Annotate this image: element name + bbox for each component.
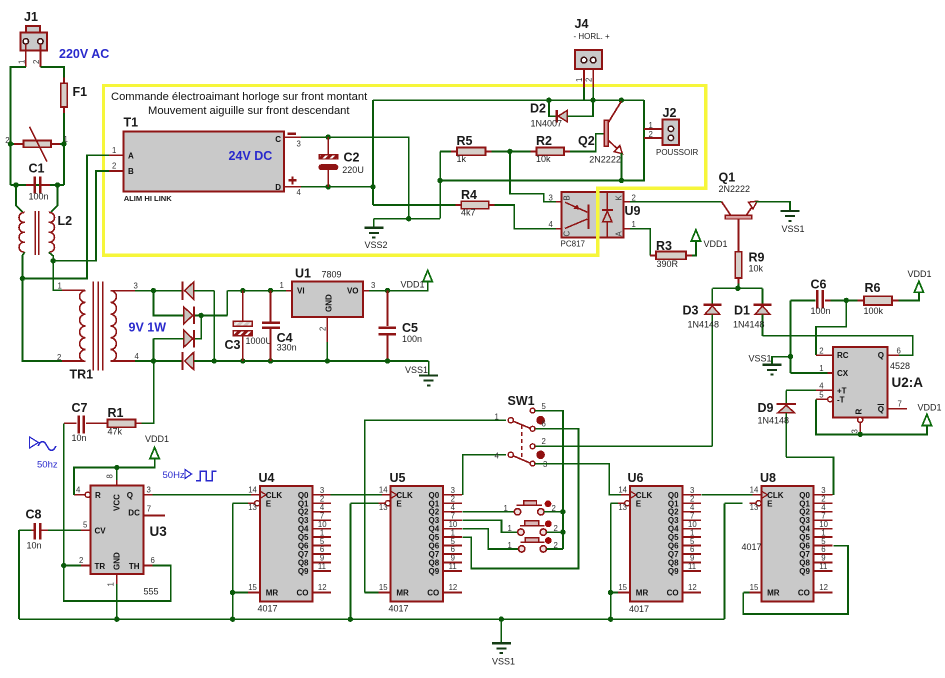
junction bridge minus	[212, 358, 217, 363]
svg-text:2: 2	[319, 327, 328, 331]
svg-text:390R: 390R	[657, 259, 679, 269]
svg-text:4k7: 4k7	[461, 207, 476, 217]
junction L2 right	[50, 258, 55, 263]
wire U1 pin2 to 0V	[326, 317, 328, 342]
svg-text:4017: 4017	[258, 604, 278, 614]
svg-text:R: R	[95, 491, 101, 500]
pin Q6 stub	[888, 354, 899, 356]
capacitor C1 100n	[10, 184, 64, 186]
bridge diode D row3	[184, 330, 193, 347]
svg-text:C6: C6	[811, 277, 827, 291]
wire R4 to U9 pin4	[495, 205, 556, 229]
resistor R4 4k7	[373, 204, 456, 206]
transistor Q2 2N2222	[619, 98, 624, 103]
svg-text:VDD1: VDD1	[704, 239, 728, 249]
svg-text:R: R	[855, 409, 864, 415]
svg-text:Q: Q	[878, 405, 884, 414]
pin +T4	[816, 389, 833, 391]
svg-text:RC: RC	[837, 351, 849, 360]
svg-text:R3: R3	[656, 239, 672, 253]
capacitor C2 220U	[326, 134, 331, 139]
wire U4 E/MR to rail	[233, 502, 248, 504]
svg-text:4: 4	[549, 220, 554, 229]
diode D3 1N4148	[711, 288, 713, 304]
svg-text:D9: D9	[758, 401, 774, 415]
capacitor C8 10n	[48, 529, 81, 531]
svg-text:- HORL. +: - HORL. +	[574, 32, 611, 41]
pin -T5 bubble	[828, 397, 833, 402]
wire bridge v3	[195, 315, 201, 338]
yellow highlight box	[104, 86, 706, 256]
svg-text:L2: L2	[58, 214, 73, 228]
SW1 contact 6	[530, 426, 535, 431]
wire U9 pin2 to Q1 collector	[624, 201, 630, 203]
svg-text:4: 4	[819, 381, 824, 390]
junction pinC/VSS2	[406, 216, 411, 221]
svg-text:R5: R5	[457, 134, 473, 148]
junction varistor right	[61, 141, 66, 146]
pin DC7	[144, 515, 166, 517]
svg-text:VDD1: VDD1	[908, 269, 932, 279]
wire TR1 pin4	[111, 360, 136, 362]
svg-text:4017: 4017	[742, 542, 762, 552]
svg-text:DC: DC	[128, 508, 140, 517]
wire CX pin1	[791, 372, 828, 374]
svg-text:7: 7	[898, 400, 902, 409]
svg-text:2: 2	[79, 556, 83, 565]
svg-text:3: 3	[147, 485, 151, 494]
svg-text:D1: D1	[734, 304, 750, 318]
svg-text:10k: 10k	[536, 154, 551, 164]
diode D9 1N4148	[786, 389, 816, 391]
pushbutton B2	[518, 529, 524, 535]
svg-text:1k: 1k	[457, 154, 467, 164]
wire D3-D1 top link	[712, 287, 762, 289]
capacitor C7 10n	[64, 422, 77, 424]
svg-text:C: C	[275, 135, 281, 144]
SW1 marker A	[536, 416, 545, 425]
resistor R5 1k	[440, 150, 451, 152]
capacitor C6 100n	[791, 299, 816, 301]
svg-text:VSS1: VSS1	[749, 354, 772, 364]
resistor R2 10k	[510, 150, 531, 152]
pin TR2	[64, 565, 81, 567]
ground VSS1 at U2	[772, 357, 791, 365]
pin TH6	[144, 565, 153, 567]
wire +24V riser and top rail	[370, 184, 375, 189]
svg-text:1N4007: 1N4007	[531, 119, 563, 129]
svg-text:6: 6	[897, 346, 901, 355]
wire U8 MR loop to Q6	[743, 592, 749, 594]
svg-text:1: 1	[58, 282, 62, 291]
svg-text:SW1: SW1	[508, 394, 535, 408]
wire U5 Q2 to button1	[463, 511, 515, 513]
wire D3 to SW1 contact2	[535, 445, 712, 447]
svg-text:1: 1	[107, 582, 116, 586]
wire 0V rail	[194, 360, 429, 362]
connector J2 POUSSOIR	[644, 128, 663, 130]
svg-text:C2: C2	[344, 151, 360, 165]
svg-text:8: 8	[106, 474, 115, 478]
svg-text:50Hz: 50Hz	[163, 470, 185, 481]
SW1 contact 5	[530, 408, 535, 413]
svg-text:K: K	[615, 195, 624, 201]
svg-text:VO: VO	[347, 287, 359, 296]
wire L2 right down	[49, 252, 62, 290]
svg-text:10n: 10n	[27, 541, 42, 551]
resistor R3 390R	[650, 254, 656, 256]
svg-text:5: 5	[542, 402, 547, 411]
svg-text:3: 3	[134, 282, 138, 291]
resistor R1 47k	[86, 422, 108, 424]
pin VCC 8	[116, 468, 118, 481]
svg-text:4017: 4017	[629, 604, 649, 614]
svg-text:5: 5	[83, 521, 88, 530]
svg-text:J4: J4	[575, 17, 589, 31]
svg-text:1: 1	[508, 541, 512, 550]
svg-text:6: 6	[542, 420, 546, 429]
wire D9 to U8 Q0	[786, 457, 833, 495]
capacitor C4 330n	[268, 288, 273, 293]
wire U5 Q5 to SW1 contact6	[463, 429, 579, 569]
svg-text:C: C	[563, 231, 572, 237]
svg-text:4017: 4017	[389, 604, 409, 614]
svg-text:VSS1: VSS1	[782, 224, 805, 234]
svg-text:2: 2	[112, 162, 116, 171]
wire -T to pin3 rail	[816, 399, 927, 434]
svg-text:220V AC: 220V AC	[59, 47, 109, 61]
svg-text:4528: 4528	[890, 361, 910, 371]
wire emitter node	[439, 151, 441, 218]
wire C6 left to VSS1/CX	[790, 300, 792, 373]
wire U5 Q3 to button2	[463, 520, 518, 532]
wire bridge v4	[152, 339, 154, 361]
svg-text:C1: C1	[29, 162, 45, 176]
svg-text:D: D	[275, 183, 281, 192]
ground VSS1 at Q1	[781, 210, 800, 212]
ground VSS2	[374, 218, 440, 220]
wire RC pin2	[816, 300, 846, 355]
svg-text:Q: Q	[878, 351, 884, 360]
svg-text:U5: U5	[390, 471, 406, 485]
svg-text:POUSSOIR: POUSSOIR	[656, 148, 698, 157]
pin R4 bubble	[85, 492, 90, 497]
pin CV5	[81, 529, 91, 531]
wire node A to T1	[22, 155, 109, 278]
pushbutton B1	[514, 509, 520, 515]
pin R3 bubble	[858, 417, 863, 422]
wire bridge v1	[153, 291, 183, 316]
wire bridge v5	[213, 291, 215, 361]
bridge diode D row1	[181, 282, 183, 300]
svg-text:D2: D2	[530, 102, 546, 116]
capacitor C3 1000U	[240, 288, 245, 293]
power VDD1 at U2 pin3	[922, 414, 931, 425]
wire U9 pin1 to R3	[624, 228, 630, 230]
pin GND1	[116, 574, 118, 584]
wire D1 to U2 Q	[763, 336, 913, 355]
wire T1 pinD net	[301, 186, 373, 188]
svg-text:A: A	[615, 231, 624, 237]
bottom VSS rail	[19, 618, 725, 620]
svg-text:1000U: 1000U	[246, 336, 273, 346]
ground VSS1 at C5	[428, 361, 430, 376]
wire U6 Q0 to U8 CLK	[702, 494, 753, 496]
svg-text:100n: 100n	[29, 192, 49, 202]
svg-text:1: 1	[495, 413, 499, 422]
svg-text:10n: 10n	[72, 433, 87, 443]
wire U4 Q0 to U5 CLK	[331, 494, 382, 496]
timer U3 555	[91, 486, 144, 574]
wire R2 to Q2 base	[570, 134, 605, 152]
optocoupler U9 PC817	[556, 201, 562, 203]
svg-text:1N4148: 1N4148	[758, 416, 790, 426]
svg-text:C3: C3	[225, 338, 241, 352]
svg-text:U2:A: U2:A	[892, 375, 924, 390]
svg-text:VSS1: VSS1	[492, 657, 515, 667]
counter U5 4017	[379, 486, 462, 602]
svg-text:F1: F1	[73, 85, 88, 99]
wire U8 E to rail	[725, 502, 743, 504]
wire node B to T1	[53, 171, 109, 261]
svg-text:U8: U8	[760, 471, 776, 485]
svg-text:1: 1	[819, 364, 823, 373]
svg-text:4: 4	[76, 485, 81, 494]
svg-text:3: 3	[297, 139, 301, 148]
svg-text:24V DC: 24V DC	[229, 149, 273, 163]
wire T1 pinC net	[301, 137, 409, 219]
diode D1 1N4148	[762, 288, 764, 304]
svg-text:4: 4	[495, 451, 500, 460]
SW1 pole B	[508, 452, 513, 457]
svg-text:TR1: TR1	[70, 368, 94, 382]
svg-text:GND: GND	[113, 552, 122, 570]
svg-text:U9: U9	[625, 204, 641, 218]
junction pin3	[858, 432, 863, 437]
svg-text:U4: U4	[259, 471, 275, 485]
wire U5 Q0 to SW1 common4	[463, 455, 506, 495]
svg-text:-T: -T	[837, 395, 845, 404]
svg-text:Commande électroaimant horloge: Commande électroaimant horloge sur front…	[111, 91, 368, 103]
svg-text:VDD1: VDD1	[145, 434, 169, 444]
resistor R9 10k	[738, 219, 740, 252]
power VDD1 at R3	[692, 241, 696, 256]
svg-text:2: 2	[585, 78, 594, 82]
svg-text:2: 2	[57, 353, 61, 362]
svg-text:C8: C8	[26, 508, 42, 522]
SW1 contact 3	[530, 461, 535, 466]
svg-text:C7: C7	[72, 401, 88, 415]
junction R9 bottom	[735, 286, 740, 291]
svg-text:VCC: VCC	[113, 494, 122, 511]
SW1 contact 2	[530, 444, 535, 449]
svg-text:Q1: Q1	[719, 171, 736, 185]
capacitor C5 100n	[385, 288, 390, 293]
counter U6 4017	[618, 486, 701, 602]
wire U6 E/MR to rail	[611, 502, 618, 504]
wire J1 pin2 to F1	[39, 44, 41, 67]
wire F1 to varistor node	[63, 113, 65, 185]
svg-text:Q2: Q2	[578, 134, 595, 148]
power VDD1 at U3	[74, 458, 155, 494]
svg-text:47k: 47k	[108, 427, 123, 437]
svg-text:GND: GND	[325, 294, 334, 312]
transistor Q1 2N2222	[725, 215, 752, 219]
svg-text:1: 1	[112, 146, 116, 155]
svg-text:9V 1W: 9V 1W	[129, 321, 167, 335]
junction TR1 pin3 node	[151, 288, 156, 293]
svg-text:J2: J2	[663, 106, 677, 120]
wire C8 to VSS rail	[18, 530, 20, 619]
svg-text:3: 3	[850, 429, 859, 433]
connector J4 -HORL.+	[583, 63, 585, 88]
svg-text:VSS1: VSS1	[405, 365, 428, 375]
svg-text:D3: D3	[683, 304, 699, 318]
counter U8 4017	[749, 486, 832, 602]
junction R5/R2/U9	[507, 149, 512, 154]
svg-text:4: 4	[135, 352, 140, 361]
svg-text:CV: CV	[95, 527, 107, 536]
svg-text:2N2222: 2N2222	[589, 154, 621, 164]
svg-text:VDD1: VDD1	[401, 280, 425, 290]
svg-text:100k: 100k	[864, 306, 884, 316]
wire U5 Q4 to button3	[463, 529, 519, 549]
svg-text:100n: 100n	[811, 306, 831, 316]
pushbutton B3	[519, 546, 525, 552]
pin Q3	[144, 494, 153, 496]
junction bridge plus	[198, 313, 203, 318]
diode D2 1N4007	[546, 98, 551, 103]
ground VSS1 bottom	[500, 619, 502, 643]
svg-text:555: 555	[144, 587, 159, 597]
junction varistor left	[8, 141, 13, 146]
svg-text:B: B	[563, 195, 572, 200]
svg-text:6: 6	[151, 556, 155, 565]
svg-text:VI: VI	[297, 287, 305, 296]
wire bridge v2	[226, 291, 228, 316]
wire U5 MR to SW1 common1	[365, 592, 379, 594]
svg-text:1N4148: 1N4148	[688, 320, 720, 330]
svg-text:CX: CX	[837, 369, 849, 378]
wire R5 node to U9 pin3	[510, 151, 556, 201]
resistor R6 100k	[846, 299, 857, 301]
svg-text:C5: C5	[402, 321, 418, 335]
annotation 50hz sine	[30, 437, 39, 448]
SW1 marker B	[536, 451, 545, 460]
svg-text:5: 5	[819, 391, 824, 400]
svg-text:2: 2	[649, 130, 653, 139]
SW1 gang link	[521, 425, 523, 459]
wire U5 E to rail	[350, 502, 378, 504]
svg-text:7: 7	[147, 505, 151, 514]
svg-text:VSS2: VSS2	[365, 240, 388, 250]
svg-text:1N4148: 1N4148	[733, 320, 765, 330]
svg-text:1: 1	[504, 504, 508, 513]
svg-text:2: 2	[819, 346, 823, 355]
SW1 pole A	[508, 418, 513, 423]
wire TR1 pin3	[111, 290, 136, 292]
choke L2	[16, 185, 23, 212]
svg-text:100n: 100n	[402, 334, 422, 344]
svg-text:4: 4	[297, 188, 302, 197]
svg-text:A: A	[128, 151, 134, 160]
svg-text:ALIM HI LINK: ALIM HI LINK	[124, 194, 173, 203]
svg-text:PC817: PC817	[561, 240, 586, 249]
regulator U1 7809	[286, 290, 292, 292]
svg-text:R2: R2	[536, 134, 552, 148]
junction VSS1 tap	[788, 354, 793, 359]
fuse F1	[63, 78, 65, 84]
svg-text:B: B	[128, 167, 134, 176]
svg-text:+T: +T	[837, 386, 847, 395]
wire C7 to U3 TR	[63, 423, 65, 565]
junction L2 left	[20, 276, 25, 281]
junction C1 left	[13, 182, 18, 187]
svg-text:U1: U1	[295, 266, 311, 280]
junction R5-R4	[437, 178, 442, 183]
transformer TR1	[80, 291, 86, 362]
junction TR1 pin4 node	[151, 358, 156, 363]
svg-text:1: 1	[508, 524, 512, 533]
svg-text:7809: 7809	[322, 269, 342, 279]
svg-text:1: 1	[280, 281, 284, 290]
bridge diode D row2	[184, 307, 193, 324]
power VDD1 at R6	[899, 292, 919, 300]
svg-text:Q: Q	[127, 491, 133, 500]
svg-text:220U: 220U	[342, 165, 364, 175]
wire TR-TH loop	[64, 566, 171, 601]
svg-text:U3: U3	[150, 524, 168, 539]
wire R1 to secondary	[142, 361, 154, 423]
power VDD1 at U1	[388, 281, 428, 290]
svg-text:U6: U6	[628, 471, 644, 485]
svg-text:50hz: 50hz	[37, 460, 58, 471]
svg-text:2N2222: 2N2222	[719, 184, 751, 194]
counter U4 4017	[248, 486, 331, 602]
svg-text:T1: T1	[124, 116, 139, 130]
svg-text:3: 3	[549, 193, 553, 202]
svg-text:J1: J1	[24, 10, 38, 24]
svg-text:Mouvement aiguille sur front d: Mouvement aiguille sur front descendant	[148, 105, 350, 117]
svg-text:TR: TR	[95, 562, 106, 571]
svg-text:R4: R4	[461, 188, 477, 202]
svg-text:R6: R6	[865, 281, 881, 295]
svg-text:2: 2	[542, 437, 546, 446]
pin Q7 stub	[888, 408, 907, 410]
svg-text:3: 3	[371, 281, 375, 290]
svg-text:1: 1	[649, 121, 653, 130]
svg-text:330n: 330n	[277, 343, 297, 353]
bridge diode D row4	[181, 352, 183, 370]
junction button2	[560, 529, 565, 534]
junction C1 right	[55, 182, 60, 187]
wire U3 Q to U4 CLK	[152, 494, 251, 496]
wire J1 pin1 to left rail	[25, 44, 27, 67]
wire +9V rail	[227, 290, 286, 292]
varistor RV1	[10, 143, 64, 145]
junction button1	[560, 509, 565, 514]
svg-text:TH: TH	[129, 562, 140, 571]
module T1 ALIM HI LINK	[109, 154, 124, 156]
junction C6/R6	[844, 298, 849, 303]
wire L2 left down	[22, 252, 62, 361]
junction TR	[61, 563, 66, 568]
svg-text:10k: 10k	[749, 263, 764, 273]
svg-text:1: 1	[575, 78, 584, 82]
svg-text:R1: R1	[108, 406, 124, 420]
connector J1	[26, 26, 40, 33]
svg-text:VDD1: VDD1	[918, 402, 942, 412]
